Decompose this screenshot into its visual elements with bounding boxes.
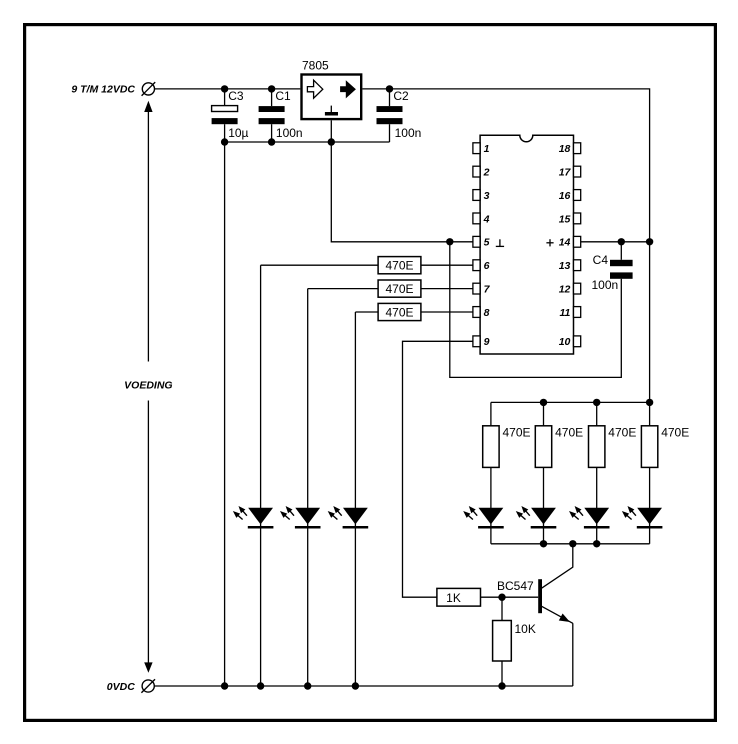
svg-text:VOEDING: VOEDING xyxy=(124,380,172,392)
junction: pin 5 node xyxy=(446,238,453,245)
junction: top rail / right rail xyxy=(646,399,653,406)
wire: resistor R4 to LED D4 xyxy=(490,467,492,543)
resistor R5 470E xyxy=(535,426,551,468)
LED D6 xyxy=(569,506,610,529)
svg-text:470E: 470E xyxy=(608,425,636,439)
svg-text:9: 9 xyxy=(484,336,490,348)
svg-text:10µ: 10µ xyxy=(228,126,248,140)
IC U2 18-pin DIP package xyxy=(473,135,581,354)
wire: emitter to 0VDC rail xyxy=(572,623,574,686)
terminal: 0VDC xyxy=(141,679,155,693)
svg-text:6: 6 xyxy=(484,260,490,272)
resistor R7 470E xyxy=(641,426,657,468)
svg-text:17: 17 xyxy=(559,167,572,179)
svg-text:9 T/M 12VDC: 9 T/M 12VDC xyxy=(71,83,135,95)
svg-text:BC547: BC547 xyxy=(497,579,534,593)
wire: pin 6 to resistor R1 xyxy=(421,264,473,266)
svg-text:100n: 100n xyxy=(395,126,422,140)
svg-text:5: 5 xyxy=(484,237,490,249)
wire: ground rail to IC pin 5 xyxy=(331,142,473,242)
svg-text:18: 18 xyxy=(559,143,571,155)
wire: LED rail to collector xyxy=(541,544,572,589)
wire: 7805 ground lead to rail xyxy=(330,120,332,142)
capacitor C4 xyxy=(610,242,633,279)
plus symbol at pin 14 xyxy=(546,239,553,246)
wire: LED D1 column xyxy=(260,265,262,686)
wire: rail to resistor R7 xyxy=(649,402,651,425)
svg-text:470E: 470E xyxy=(555,425,583,439)
transistor Q1 BC547 xyxy=(538,579,573,623)
wire: resistor R5 to LED D5 xyxy=(543,467,545,543)
svg-text:16: 16 xyxy=(559,190,571,202)
wire: LED D3 column xyxy=(354,312,356,686)
svg-text:470E: 470E xyxy=(385,282,413,296)
svg-text:12: 12 xyxy=(559,284,571,296)
wire: IC pin 14 to right rail xyxy=(581,241,650,243)
junction: C2 / 7805 output xyxy=(386,85,393,92)
wire: pin 7 to resistor R2 xyxy=(421,288,473,290)
voeding arrow up half xyxy=(144,101,152,362)
svg-text:C4: C4 xyxy=(593,253,609,267)
junction: base node / 10K xyxy=(498,594,505,601)
wire: right resistor top rail xyxy=(491,401,650,403)
ground symbol at pin 5 xyxy=(496,239,504,246)
wire: resistor R1 to LED column xyxy=(261,264,379,266)
svg-text:8: 8 xyxy=(484,307,490,319)
junction: 0VDC / ground drop xyxy=(221,682,228,689)
wire: 0VDC ground rail xyxy=(154,685,572,687)
wire: 10K to 0VDC rail xyxy=(501,661,503,686)
wire: LED D2 column xyxy=(307,289,309,686)
capacitor C2 xyxy=(377,89,403,142)
junction: pin 14 wire / right rail xyxy=(646,238,653,245)
wire: rail to resistor R6 xyxy=(596,402,598,425)
capacitor C1 xyxy=(259,89,285,142)
svg-text:C1: C1 xyxy=(275,89,291,103)
svg-text:15: 15 xyxy=(559,213,571,225)
resistor R9 10K xyxy=(493,621,512,662)
junction: C4 / pin 14 wire xyxy=(618,238,625,245)
junction: 0VDC / D2 xyxy=(304,682,311,689)
junction: 0VDC / 10K xyxy=(498,682,505,689)
wire: bottom LED rail xyxy=(491,543,650,545)
svg-text:1: 1 xyxy=(484,143,490,155)
wire: resistor R6 to LED D6 xyxy=(596,467,598,543)
svg-text:14: 14 xyxy=(559,237,571,249)
LED D4 xyxy=(463,506,504,529)
junction: C3 / ground rail xyxy=(221,138,228,145)
resistor R2 470E xyxy=(378,280,421,297)
junction: 7805 gnd / ground rail xyxy=(328,138,335,145)
svg-text:2: 2 xyxy=(483,167,490,179)
junction: LED rail / collector xyxy=(569,540,576,547)
capacitor C3 (electrolytic) xyxy=(212,89,238,142)
resistor R3 470E xyxy=(378,303,421,320)
wire: ground rail down to 0VDC xyxy=(224,142,226,686)
svg-text:470E: 470E xyxy=(661,425,689,439)
wire: resistor R7 to LED D7 xyxy=(649,467,651,543)
voeding arrow down half xyxy=(144,401,152,673)
wire: rail to resistor R4 xyxy=(490,402,492,425)
wire: 7805 output rail to right vertical rail xyxy=(362,89,649,403)
LED D5 xyxy=(516,506,557,529)
svg-text:100n: 100n xyxy=(276,126,303,140)
svg-text:0VDC: 0VDC xyxy=(107,681,135,693)
svg-text:4: 4 xyxy=(483,213,490,225)
svg-text:11: 11 xyxy=(559,307,570,319)
junction: C3 / +V rail xyxy=(221,85,228,92)
terminal: 9 T/M 12VDC supply input xyxy=(142,82,156,96)
resistor R1 470E xyxy=(378,257,421,274)
voltage regulator U1 7805 xyxy=(302,75,362,120)
svg-text:C3: C3 xyxy=(228,89,244,103)
svg-text:1K: 1K xyxy=(446,591,461,605)
LED D2 xyxy=(280,506,321,529)
LED D3 xyxy=(328,506,369,529)
LED D1 xyxy=(233,506,274,529)
wire: pin5 node to C4 ground trace xyxy=(450,242,622,378)
svg-text:470E: 470E xyxy=(385,305,413,319)
junction: LED rail / D5 xyxy=(540,540,547,547)
svg-text:10K: 10K xyxy=(515,622,536,636)
svg-text:10: 10 xyxy=(559,336,571,348)
resistor R8 1K xyxy=(437,588,481,606)
svg-text:13: 13 xyxy=(559,260,571,272)
wire: base node to 10K xyxy=(501,597,503,620)
junction: C1 / +V rail xyxy=(268,85,275,92)
junction: top rail / R6 xyxy=(593,399,600,406)
wire: pin 8 to resistor R3 xyxy=(421,311,473,313)
svg-text:7805: 7805 xyxy=(302,59,329,73)
svg-text:100n: 100n xyxy=(592,278,619,292)
junction: LED rail / D6 xyxy=(593,540,600,547)
wire: rail to resistor R5 xyxy=(543,402,545,425)
wire: resistor R3 to LED column xyxy=(355,311,378,313)
svg-text:470E: 470E xyxy=(385,259,413,273)
wire: top supply rail from input terminal to 7805 input xyxy=(155,88,301,90)
junction: 0VDC / D1 xyxy=(257,682,264,689)
wire: resistor R2 to LED column xyxy=(308,288,378,290)
wire: 1K to base xyxy=(481,596,539,598)
wire: IC pin 9 to 1K resistor xyxy=(403,341,473,597)
junction: top rail / R5 xyxy=(540,399,547,406)
svg-text:3: 3 xyxy=(484,190,490,202)
LED D7 xyxy=(622,506,663,529)
svg-text:C2: C2 xyxy=(393,89,409,103)
junction: C1 / ground rail xyxy=(268,138,275,145)
wire: capacitor ground rail xyxy=(225,141,390,143)
resistor R4 470E xyxy=(483,426,499,468)
junction: 0VDC / D3 xyxy=(352,682,359,689)
svg-text:470E: 470E xyxy=(503,425,531,439)
resistor R6 470E xyxy=(589,426,605,468)
